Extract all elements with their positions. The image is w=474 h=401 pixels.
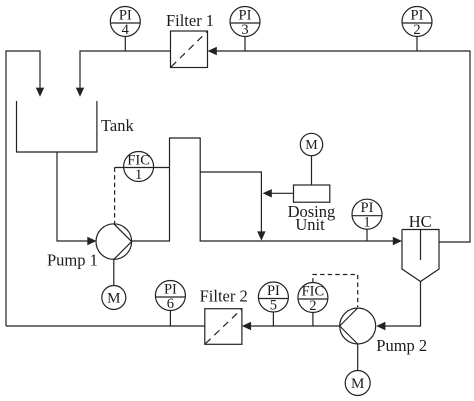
instrument PI5 [258, 282, 288, 312]
svg-text:1: 1 [135, 167, 142, 183]
instrument FIC2 [298, 283, 328, 313]
wire pump2 outlet to filter2 [251, 325, 340, 327]
HC vortex finder [420, 230, 422, 261]
svg-text:Filter 2: Filter 2 [200, 287, 248, 306]
arrow into pump1 [87, 237, 96, 245]
instrument PI5 stem [272, 312, 274, 326]
motor M of pump2 [345, 371, 370, 396]
arrow into filter2 [242, 322, 251, 330]
svg-text:Pump 2: Pump 2 [376, 336, 427, 355]
instrument FIC1 [124, 152, 154, 182]
filter F2 box [205, 309, 242, 345]
instrument PI3 stem [244, 37, 246, 52]
svg-text:M: M [351, 376, 364, 392]
instrument PI2 stem [416, 37, 418, 52]
instrument PI4 stem [124, 37, 126, 52]
instrument PI1 stem [366, 229, 368, 241]
wire dosing outlet [272, 192, 294, 194]
svg-text:Unit: Unit [295, 215, 325, 234]
wire pump2 shaft to motor [357, 344, 359, 371]
svg-text:2: 2 [309, 298, 316, 314]
arrow into tank right [76, 88, 84, 97]
svg-text:M: M [107, 290, 120, 306]
filter F2 dashed diagonal [206, 309, 242, 343]
wire filter2 outlet to left riser [6, 325, 205, 327]
wire dosing motor shaft [311, 156, 313, 186]
wire HC underflow to pump2 [385, 282, 421, 327]
wire pump1 shaft to motor M [113, 259, 115, 285]
arrow into HC [393, 237, 402, 245]
instrument PI3 [230, 7, 260, 37]
wire injection drop line [200, 172, 261, 232]
arrow into filter1 [208, 47, 217, 55]
hydrocyclone HC vessel [402, 230, 439, 282]
instrument PI1 [352, 199, 382, 229]
dashed control line FIC1 to pump1 [114, 168, 116, 224]
svg-text:1: 1 [363, 215, 370, 231]
pump P2 [340, 308, 376, 344]
arrow into pump2 [376, 322, 385, 330]
filter F1 dashed diagonal [171, 32, 207, 67]
instrument PI6 stem [169, 311, 171, 327]
instrument FIC2 stem [312, 313, 314, 327]
svg-text:HC: HC [409, 212, 432, 231]
instrument PI4 [110, 7, 140, 37]
dosing unit box [294, 185, 330, 202]
svg-text:M: M [305, 138, 318, 153]
motor M of dosing unit [300, 133, 322, 155]
svg-text:5: 5 [270, 298, 277, 314]
filter F1 box [171, 31, 208, 68]
pump P1 [96, 224, 132, 260]
arrow dosing into drop line [263, 189, 272, 197]
wire tank outlet to pump1 [57, 152, 88, 241]
svg-text:Pump 1: Pump 1 [47, 250, 98, 269]
wire HC overflow to right riser [209, 51, 470, 242]
svg-text:6: 6 [167, 296, 174, 312]
tank [17, 101, 97, 152]
dashed control line FIC2 to pump2 [313, 275, 358, 308]
svg-text:Tank: Tank [101, 116, 135, 135]
wire left return riser [6, 51, 40, 326]
wire filter1 outlet to tank [80, 51, 171, 88]
motor M of pump1 [102, 286, 126, 310]
instrument FIC1 tap line [115, 167, 170, 169]
instrument PI2 [402, 7, 432, 37]
instrument PI6 [155, 281, 185, 311]
arrow injection into main line [257, 231, 265, 240]
svg-text:3: 3 [241, 22, 248, 38]
arrow into tank left [36, 88, 44, 97]
svg-text:Filter 1: Filter 1 [166, 11, 214, 30]
wire pump1 outlet riser loop [132, 138, 394, 241]
svg-text:4: 4 [122, 22, 130, 38]
svg-text:2: 2 [413, 22, 420, 38]
